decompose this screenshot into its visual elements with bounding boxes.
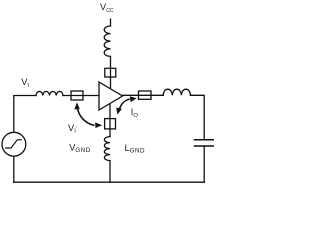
inductor L_GND (ground lead inductance, vertical 4 humps bulging left): [104, 137, 110, 161]
ferrite bead FB1 (input): [71, 91, 83, 100]
wire: capacitor to bottom ground rail: [203, 146, 205, 182]
wire: bottom ground rail: [14, 181, 204, 183]
ferrite bead FB2 (supply): [105, 68, 116, 77]
wire: source bottom lead: [13, 156, 15, 182]
op-amp U1 (amplifier triangle): [99, 82, 123, 110]
source V1 ramp waveform: [6, 140, 22, 148]
inductor L_VCC (supply choke, vertical 4 humps bulging left): [104, 26, 110, 56]
ferrite bead FB4 (ground lead): [105, 119, 116, 129]
annotation arrow V_I' (curved double-headed arc input to ground bead): [74, 102, 102, 128]
capacitor C1 bottom plate: [195, 145, 214, 147]
inductor L_OUT (output series inductor, 3 humps): [163, 89, 190, 95]
wire: input inductor through bead FB1 to amplifier input: [63, 95, 99, 97]
wire: amplifier bottom to ground bead FB4: [109, 96, 111, 137]
wire: amplifier output through bead FB3 to output inductor: [123, 94, 164, 96]
wire: Vcc lead down to supply inductor: [110, 19, 112, 26]
annotation arrow I_O (curved double-headed arc output to ground bead): [116, 96, 136, 114]
ferrite bead FB3 (output): [139, 91, 152, 99]
wire: left input rail from source up to input node: [14, 96, 36, 133]
source V1 (signal generator circle with ramp): [2, 132, 26, 156]
wire: supply inductor to ferrite bead FB2 and into op-amp top: [110, 57, 112, 89]
wire: output to right rail corner down to capacitor: [191, 95, 205, 139]
wire: L_GND to bottom rail: [109, 161, 111, 183]
inductor L_IN (input series inductor, 4 humps): [36, 91, 63, 95]
capacitor C1 top plate: [195, 139, 214, 141]
